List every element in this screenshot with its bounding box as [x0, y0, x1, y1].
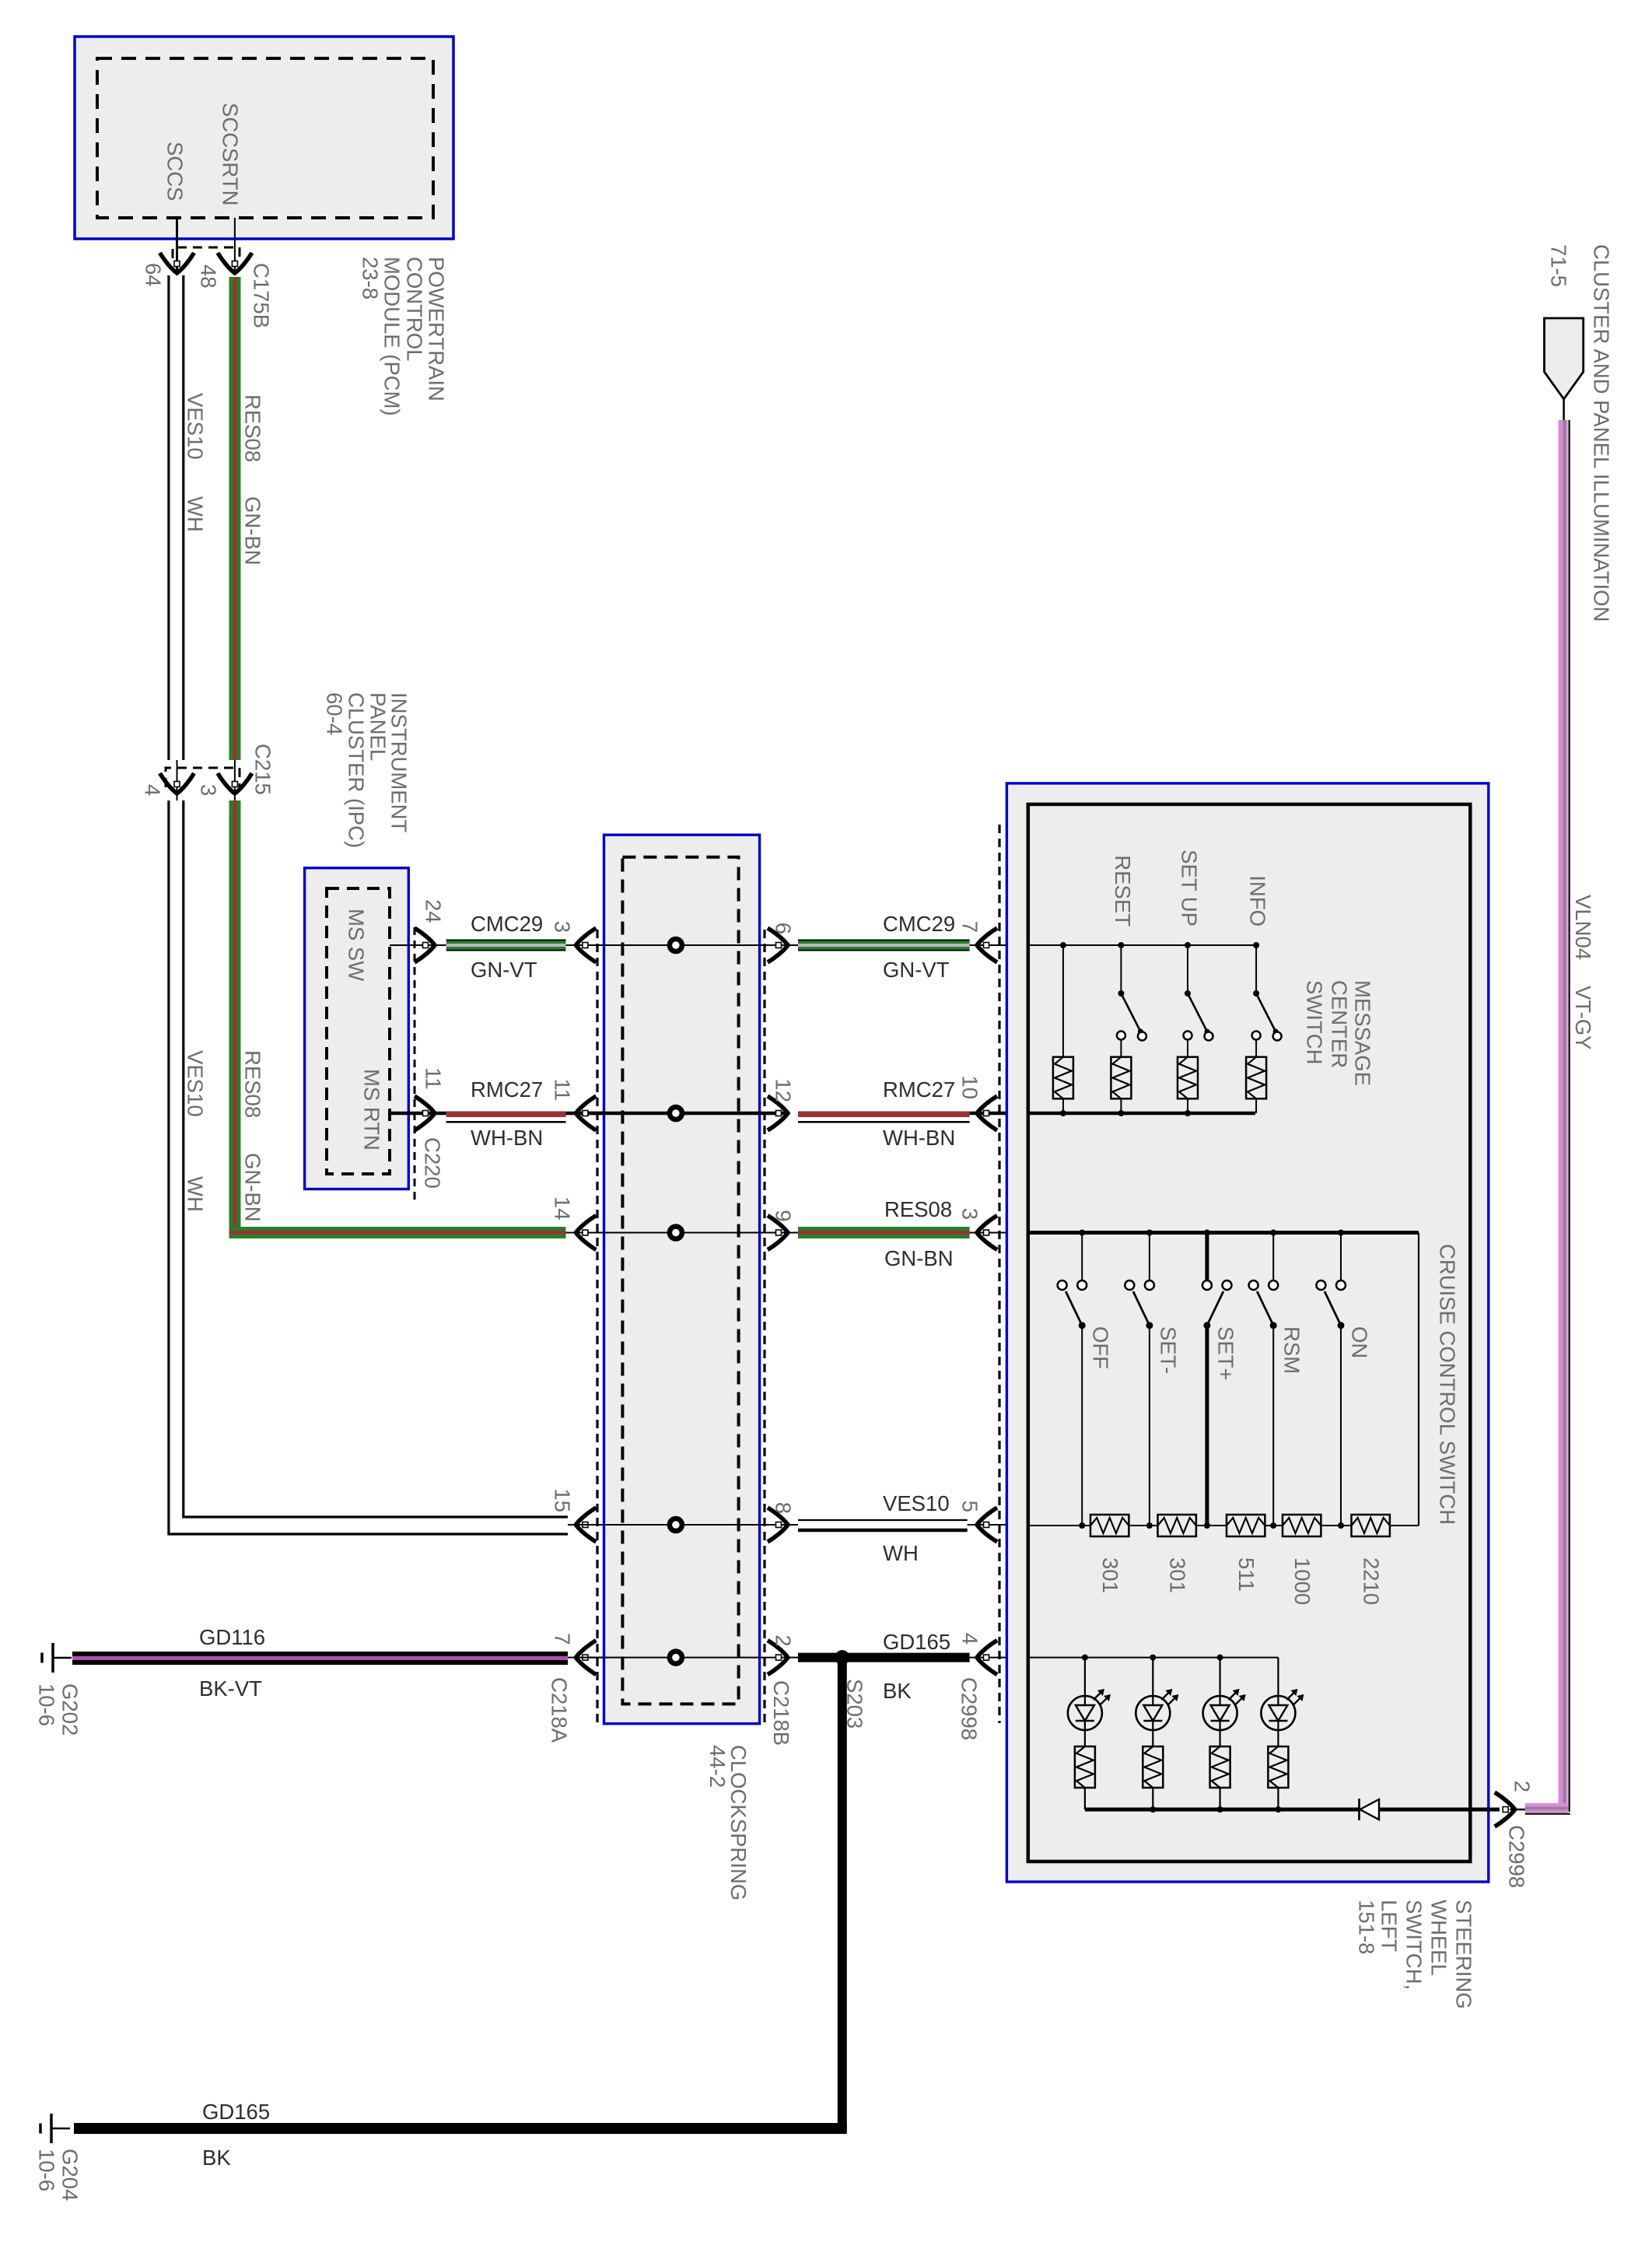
svg-text:9: 9 [772, 1210, 796, 1221]
steering wheel switch inner box [1028, 804, 1471, 1862]
connector C218A arrow pin 15 [576, 1508, 596, 1542]
svg-text:3: 3 [197, 784, 221, 796]
svg-text:60-4: 60-4 [323, 692, 347, 735]
wire SCCS stub from PCM [176, 218, 178, 274]
switch RSM [1270, 1230, 1276, 1236]
diode CR1 [1360, 1799, 1380, 1820]
wire RES08 GN-BN band clockspring to steering switch [798, 1227, 970, 1238]
connector C218B arrow pin 9 [768, 1216, 788, 1250]
wire VES10 WH double line vertical run [169, 275, 568, 1534]
LED resistor 3 [1210, 1746, 1230, 1788]
svg-text:5: 5 [958, 1501, 982, 1512]
wire RES08 thin stub to clockspring [566, 1232, 607, 1234]
svg-text:10-6: 10-6 [35, 1683, 59, 1726]
svg-text:4: 4 [141, 784, 165, 796]
wire VLN04 VT-GY pink illumination feed [1559, 420, 1568, 1809]
svg-text:2210: 2210 [1360, 1557, 1384, 1605]
svg-text:MESSAGE: MESSAGE [1351, 980, 1375, 1086]
svg-text:CRUISE CONTROL SWITCH: CRUISE CONTROL SWITCH [1436, 1244, 1460, 1525]
svg-text:15: 15 [551, 1488, 575, 1512]
svg-text:C218B: C218B [769, 1680, 793, 1746]
svg-text:7: 7 [551, 1633, 575, 1645]
svg-text:BK: BK [883, 1679, 912, 1703]
svg-text:STEERING: STEERING [1452, 1900, 1476, 2009]
connector C2998 arrow pin 4 [977, 1641, 997, 1675]
wire stub from off-page reference [1563, 399, 1565, 422]
svg-text:GD165: GD165 [883, 1630, 950, 1654]
svg-text:WH-BN: WH-BN [883, 1126, 955, 1150]
message center switch bus CMC29 [1028, 944, 1255, 946]
svg-text:G202: G202 [58, 1683, 82, 1736]
connector C218B arrow pin 12 [768, 1096, 788, 1130]
clockspring coil symbol on RMC27 row [670, 1107, 682, 1119]
svg-text:VES10: VES10 [184, 393, 208, 460]
connector C220 arrow pin 24 [415, 928, 435, 962]
svg-text:151-8: 151-8 [1355, 1900, 1379, 1954]
LED lamp 1 [1082, 1655, 1088, 1661]
message center resistor [1246, 1057, 1266, 1099]
svg-text:GN-BN: GN-BN [241, 1153, 265, 1222]
cruise control switch box right edge [1418, 1233, 1419, 1526]
wire VES10 stub to clockspring [568, 1524, 606, 1526]
svg-text:GD116: GD116 [199, 1625, 265, 1649]
LED lamp 4 [1277, 1658, 1279, 1696]
svg-text:WH: WH [184, 1176, 208, 1212]
svg-text:SET+: SET+ [1213, 1326, 1237, 1381]
svg-text:WH: WH [184, 496, 208, 532]
connector C220 dashed line [414, 927, 416, 1204]
svg-text:6: 6 [772, 923, 796, 934]
svg-text:SCCSRTN: SCCSRTN [219, 103, 243, 205]
wire GD116 BK-VT from ground G202 to clockspring [72, 1652, 568, 1665]
wire MS RTN from IPC [390, 1112, 446, 1116]
svg-text:C175B: C175B [250, 263, 274, 328]
svg-text:2: 2 [772, 1634, 796, 1646]
message center resistor [1111, 1057, 1131, 1099]
svg-text:C2998: C2998 [1505, 1825, 1529, 1888]
splice S203 [835, 1650, 849, 1665]
svg-text:RES08: RES08 [241, 394, 265, 462]
svg-text:INFO: INFO [1246, 875, 1270, 927]
wire GD116 stub to clockspring [568, 1657, 606, 1659]
switch ON [1338, 1230, 1344, 1236]
wire from diode to connector C2998 pin 2 [1379, 1808, 1500, 1812]
svg-text:11: 11 [551, 1078, 575, 1101]
svg-text:SET UP: SET UP [1178, 850, 1202, 927]
connector C215 dashed bracket [166, 768, 240, 787]
svg-text:2: 2 [1510, 1781, 1535, 1792]
svg-text:GN-BN: GN-BN [241, 496, 265, 566]
cruise resistor 511 (SET+) [1227, 1515, 1265, 1536]
wire RES08 GN-BN vertical run from PCM [229, 277, 241, 760]
switch SET+ [1204, 1230, 1210, 1236]
svg-text:BK: BK [202, 2146, 231, 2170]
connector C175B arrow pin 64 [160, 253, 194, 273]
connector C218B arrow pin 2 [768, 1641, 788, 1675]
wire VES10 stub into steering switch [787, 1524, 798, 1526]
svg-text:7: 7 [958, 921, 982, 933]
switch INFO [1255, 945, 1257, 993]
steering wheel switch box [1006, 783, 1488, 1882]
PCM module box POWERTRAIN CONTROL MODULE [75, 37, 453, 239]
svg-text:CMC29: CMC29 [883, 912, 955, 936]
svg-text:RMC27: RMC27 [883, 1077, 955, 1102]
IPC instrument panel cluster box [305, 868, 409, 1189]
svg-text:RES08: RES08 [884, 1197, 952, 1221]
svg-text:11: 11 [422, 1067, 446, 1090]
svg-text:RESET: RESET [1111, 855, 1135, 927]
wire CMC29 thin stub to clockspring [566, 944, 607, 946]
connector C220 arrow pin 11 [415, 1096, 435, 1130]
LED lamp 3 [1217, 1655, 1223, 1661]
svg-text:G204: G204 [58, 2149, 82, 2201]
switch SET UP [1187, 945, 1188, 993]
connector C218A arrow pin 14 [576, 1216, 596, 1250]
wire GD through clockspring [577, 1657, 787, 1659]
svg-text:MS RTN: MS RTN [360, 1069, 384, 1151]
off-page reference CLUSTER AND PANEL ILLUMINATION [1545, 318, 1584, 399]
wire stub to VLN04 [1510, 1809, 1528, 1811]
wire RMC27 WH-BN band clockspring to steering switch [798, 1112, 970, 1118]
svg-text:GN-VT: GN-VT [471, 958, 537, 982]
wire RMC27 stub into steering switch [970, 1112, 1028, 1116]
connector C215 arrow pin 4 [160, 773, 194, 793]
svg-text:3: 3 [958, 1208, 982, 1220]
svg-text:POWERTRAIN: POWERTRAIN [425, 257, 449, 401]
wire GD165 stub into steering switch [970, 1657, 1028, 1659]
svg-text:71-5: 71-5 [1547, 244, 1571, 287]
svg-text:WHEEL: WHEEL [1427, 1900, 1451, 1976]
cruise control switch bus RES08 thick [1028, 1231, 1419, 1235]
svg-text:1000: 1000 [1290, 1557, 1314, 1605]
connector C218A arrow pin 11 [576, 1096, 596, 1130]
wire GD165 BK thick black clockspring to steering switch [787, 1657, 798, 1659]
cruise resistor 1000 (RSM) [1283, 1515, 1321, 1536]
svg-text:4: 4 [958, 1633, 982, 1645]
switch RESET [1120, 945, 1122, 993]
LED illumination top bus GD165 [1028, 1657, 1278, 1659]
clockspring coil symbol on GD row [670, 1652, 682, 1664]
svg-text:RES08: RES08 [241, 1050, 265, 1118]
wire RMC27 WH-BN band IPC to clockspring [446, 1112, 566, 1118]
svg-text:24: 24 [422, 899, 446, 923]
svg-text:LEFT: LEFT [1377, 1900, 1402, 1952]
svg-text:GN-VT: GN-VT [883, 958, 950, 982]
wire RES08 GN-BN run from C215 down and right to clockspring [229, 800, 241, 1238]
svg-text:VES10: VES10 [883, 1491, 950, 1515]
clockspring coil symbol on RES08 row [670, 1227, 682, 1239]
wire VES10 stub at C215 [177, 760, 178, 800]
connector C218B arrow pin 6 [768, 928, 788, 962]
cruise resistor 2210 (ON) [1352, 1515, 1390, 1536]
svg-text:SWITCH,: SWITCH, [1402, 1900, 1426, 1990]
connector C2998 arrow pin 3 [977, 1216, 997, 1250]
wire RES08 through clockspring [577, 1232, 787, 1234]
LED resistor 4 [1268, 1746, 1288, 1788]
svg-text:48: 48 [197, 264, 221, 289]
connector C2998 dashed line [998, 825, 1000, 1723]
wire RES08 stub at C215 [234, 760, 236, 800]
wire CMC29 GN-VT band clockspring to steering switch [798, 940, 970, 951]
message center resistor [1053, 1057, 1073, 1099]
svg-text:C2998: C2998 [957, 1677, 982, 1740]
LED bottom bus to diode [1085, 1808, 1360, 1812]
svg-text:C218A: C218A [548, 1677, 572, 1743]
connector C2998 arrow pin 5 [977, 1508, 997, 1542]
wire RMC27 stub to clockspring [566, 1112, 607, 1116]
svg-text:301: 301 [1166, 1557, 1190, 1593]
wire RES08 stub into steering switch [787, 1232, 798, 1234]
wire CMC29 stub into steering switch [787, 944, 798, 946]
connector C2998 arrow pin 7 [977, 928, 997, 962]
svg-text:RMC27: RMC27 [471, 1077, 543, 1102]
svg-text:3: 3 [551, 921, 575, 933]
svg-text:WH: WH [883, 1541, 919, 1565]
wire RMC27 through clockspring [577, 1112, 787, 1116]
connector C215 arrow pin 3 [218, 773, 252, 793]
svg-text:CENTER: CENTER [1328, 980, 1352, 1068]
svg-text:CLUSTER AND PANEL ILLUMINATION: CLUSTER AND PANEL ILLUMINATION [1590, 244, 1614, 622]
svg-text:VLN04: VLN04 [1571, 895, 1595, 960]
cruise control resistor bus VES10 [1028, 1525, 1419, 1526]
ground G204 [50, 2114, 53, 2143]
svg-text:44-2: 44-2 [705, 1745, 730, 1788]
svg-text:OFF: OFF [1089, 1326, 1113, 1369]
LED resistor 2 [1143, 1746, 1163, 1788]
wire VES10 WH double line clockspring to steering switch [798, 1519, 968, 1521]
wire CMC29 GN-VT band IPC to clockspring [446, 940, 566, 951]
clockspring coil symbol on CMC29 row [670, 939, 682, 951]
svg-text:14: 14 [551, 1196, 575, 1221]
connector C218A dashed line [596, 930, 598, 1723]
svg-text:VT-GY: VT-GY [1571, 986, 1595, 1050]
svg-text:ON: ON [1348, 1326, 1372, 1358]
connector C218B dashed line [763, 930, 765, 1723]
message center resistor branch (no switch) [1062, 945, 1064, 1057]
svg-text:C215: C215 [251, 744, 275, 795]
connector C175B arrow pin 48 [218, 253, 252, 273]
svg-text:VES10: VES10 [184, 1050, 208, 1117]
switch SET- [1146, 1230, 1153, 1236]
LED resistor 1 [1075, 1746, 1095, 1788]
message center resistor [1178, 1057, 1198, 1099]
connector C218A arrow pin 3 [576, 928, 596, 962]
cruise resistor 301 (OFF) [1090, 1515, 1129, 1536]
svg-text:SCCS: SCCS [163, 142, 187, 201]
svg-text:CMC29: CMC29 [471, 912, 543, 936]
LED lamp 2 [1150, 1655, 1156, 1661]
connector C175B dashed bracket [173, 247, 240, 258]
svg-text:12: 12 [772, 1078, 796, 1102]
switch OFF [1079, 1230, 1085, 1236]
svg-text:CONTROL: CONTROL [403, 257, 427, 361]
svg-text:MS SW: MS SW [345, 909, 369, 981]
wire GD165 BK from splice S203 down to ground G204 [838, 1658, 847, 2133]
wire MS SW from IPC [390, 944, 446, 946]
svg-text:23-8: 23-8 [359, 257, 383, 300]
svg-text:10-6: 10-6 [35, 2149, 59, 2191]
svg-text:C220: C220 [421, 1137, 445, 1189]
svg-text:CLUSTER (IPC): CLUSTER (IPC) [345, 692, 369, 848]
svg-text:RSM: RSM [1280, 1326, 1304, 1374]
svg-text:SWITCH: SWITCH [1303, 980, 1327, 1064]
wire VES10 through clockspring [577, 1524, 787, 1526]
connector C218B arrow pin 8 [768, 1508, 788, 1542]
svg-text:8: 8 [772, 1502, 796, 1514]
svg-text:GN-BN: GN-BN [884, 1246, 954, 1270]
clockspring coil symbol on VES10 row [670, 1519, 682, 1531]
svg-text:MODULE (PCM): MODULE (PCM) [380, 257, 404, 416]
svg-text:SET-: SET- [1156, 1326, 1180, 1374]
ground G202 [51, 1643, 54, 1673]
connector C218A arrow pin 7 [576, 1641, 596, 1675]
svg-text:10: 10 [958, 1075, 982, 1099]
wire SCCSRTN stub from PCM [234, 218, 236, 274]
clockspring box [604, 835, 760, 1724]
svg-text:WH-BN: WH-BN [471, 1126, 543, 1150]
wire CMC29 through clockspring [577, 944, 787, 946]
connector C2998 arrow pin 2 [1495, 1792, 1515, 1827]
svg-text:64: 64 [142, 263, 166, 287]
message center switch return bus RMC27 [1028, 1112, 1255, 1116]
cruise resistor 301 (SET-) [1158, 1515, 1196, 1536]
svg-text:BK-VT: BK-VT [199, 1676, 262, 1701]
svg-text:301: 301 [1098, 1557, 1122, 1593]
svg-text:PANEL: PANEL [366, 692, 390, 761]
svg-text:GD165: GD165 [202, 2100, 270, 2124]
connector C2998 arrow pin 10 [977, 1096, 997, 1130]
svg-text:511: 511 [1234, 1557, 1258, 1592]
